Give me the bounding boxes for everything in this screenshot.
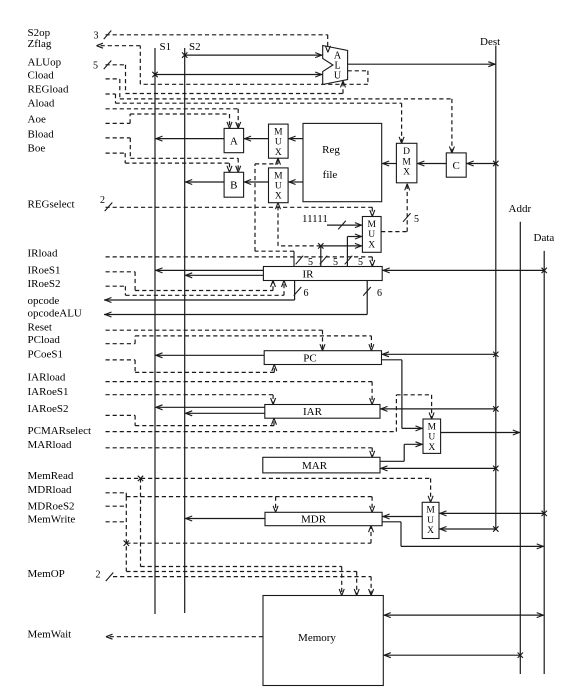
svg-text:opcodeALU: opcodeALU (28, 308, 82, 320)
control Aoe (106, 114, 233, 128)
svg-text:IARoeS1: IARoeS1 (28, 386, 69, 398)
wire MUX2 to B (244, 180, 269, 185)
label width 6 opcodeALU (377, 288, 382, 299)
svg-text:3: 3 (94, 31, 99, 42)
control MUX2 select (276, 203, 321, 246)
svg-text:11111: 11111 (302, 213, 328, 225)
label IARoeS1 (28, 386, 69, 398)
svg-text:6: 6 (377, 288, 382, 299)
svg-text:Reset: Reset (28, 322, 52, 334)
svg-text:6: 6 (304, 288, 309, 299)
svg-text:Boe: Boe (28, 142, 46, 154)
svg-text:M: M (428, 422, 437, 432)
register B (224, 172, 244, 197)
svg-text:U: U (427, 516, 434, 526)
wire Memory to Data (383, 613, 544, 618)
svg-text:IR: IR (303, 268, 315, 280)
svg-text:5: 5 (414, 214, 419, 225)
wire MUX4 to MDR (382, 514, 422, 519)
svg-text:PCload: PCload (28, 334, 61, 346)
svg-text:MemRead: MemRead (28, 470, 74, 482)
wire S2 to ALU input 1 (182, 52, 323, 57)
wire PC to S1 (155, 353, 264, 358)
svg-text:Data: Data (534, 232, 555, 244)
wire MUX3 select out to DMX (381, 183, 410, 232)
svg-text:Cload: Cload (28, 69, 55, 81)
bus Addr (509, 203, 532, 674)
wire C to DMX (417, 161, 446, 166)
svg-text:file: file (323, 169, 338, 181)
register IAR (265, 405, 380, 419)
register MAR (263, 457, 380, 473)
svg-text:M: M (402, 157, 411, 167)
mux MUX5 (addr select) (423, 419, 441, 453)
wire DMX to Regfile (382, 161, 397, 166)
svg-text:A: A (230, 136, 238, 148)
svg-text:X: X (275, 148, 282, 158)
svg-text:X: X (275, 192, 282, 202)
register IR (263, 267, 382, 281)
mux MUX4 (MDR input) (422, 502, 439, 538)
label opcode (28, 295, 60, 307)
label IRoeS1 (28, 265, 61, 277)
control Cload (106, 79, 455, 153)
memory block (263, 596, 383, 686)
wire IR to S1 (155, 268, 263, 273)
svg-text:M: M (274, 128, 283, 138)
wire IR to S2 (185, 273, 264, 278)
mux MUX3 (reg select) (362, 217, 381, 253)
register file (303, 123, 382, 201)
svg-text:Addr: Addr (509, 203, 532, 215)
label Aload (28, 97, 55, 109)
control IARoeS2 (106, 415, 277, 425)
svg-text:5: 5 (358, 257, 363, 268)
svg-text:X: X (427, 526, 434, 536)
label S2op (28, 27, 51, 39)
control S2op (94, 30, 331, 52)
svg-text:Dest: Dest (480, 36, 500, 48)
svg-text:MDR: MDR (301, 514, 327, 526)
wire IR field2 to MUX3 (318, 243, 362, 266)
wire MAR out to MUX5 (380, 442, 423, 462)
control REGload (106, 94, 405, 143)
svg-text:Aload: Aload (28, 97, 55, 109)
wire Data to MUX4 (439, 511, 547, 516)
svg-text:REGselect: REGselect (28, 198, 75, 210)
control MUX1 select (255, 158, 294, 251)
control ALUop (93, 60, 346, 93)
control PCoeS1 (106, 360, 277, 373)
svg-text:Memory: Memory (298, 632, 336, 644)
control REGselect (100, 195, 375, 217)
control MemRead (106, 476, 434, 596)
label MemWrite (28, 513, 76, 525)
svg-text:IARload: IARload (28, 372, 66, 384)
control IARoeS1 (106, 395, 276, 405)
ALU unit (323, 46, 348, 85)
control Bload (106, 138, 241, 172)
wire MDR out to Data (382, 522, 544, 549)
svg-text:U: U (428, 433, 435, 443)
svg-text:opcode: opcode (28, 295, 60, 307)
wire Dest to IAR (380, 406, 499, 411)
label REGload (28, 83, 69, 95)
svg-text:M: M (426, 506, 435, 516)
control Zflag (97, 43, 368, 84)
wire A to S1 (155, 136, 224, 141)
label PCMARselect (28, 425, 92, 437)
control MemOP (96, 569, 374, 595)
wire MUX5 to Addr (441, 430, 521, 435)
wire S1 to ALU input 2 (152, 72, 322, 77)
label PCoeS1 (28, 349, 63, 361)
label IARload (28, 372, 66, 384)
wire Dest to PC (382, 352, 499, 357)
svg-text:Reg: Reg (322, 144, 340, 156)
svg-text:MemOP: MemOP (28, 568, 65, 580)
label ALUop (28, 56, 62, 68)
svg-text:MARload: MARload (28, 439, 73, 451)
label opcodeALU (28, 308, 82, 320)
bus Dest (480, 36, 500, 529)
svg-text:ALUop: ALUop (28, 56, 62, 68)
control PCMARselect (106, 395, 435, 432)
register A (224, 128, 244, 152)
label width 6 opcode (304, 288, 309, 299)
wire Dest to C (466, 161, 498, 166)
label Aoe (28, 114, 46, 126)
svg-text:IARoeS2: IARoeS2 (28, 403, 69, 415)
wire IAR to S2 (185, 411, 265, 416)
svg-text:U: U (334, 71, 342, 82)
svg-text:X: X (403, 168, 410, 178)
label MDRoeS2 (28, 500, 75, 512)
svg-text:REGload: REGload (28, 83, 69, 95)
svg-text:B: B (230, 180, 237, 192)
wire IAR to S1 (155, 405, 265, 410)
svg-text:M: M (274, 171, 283, 181)
control MARload (106, 448, 375, 458)
svg-text:IRoeS2: IRoeS2 (28, 278, 61, 290)
wire IR field3 to MUX3 (345, 234, 363, 267)
label MemOP (28, 568, 65, 580)
control MDRload (106, 493, 375, 513)
svg-text:M: M (367, 220, 376, 230)
node constant 11111 (302, 213, 362, 230)
register MDR (265, 512, 382, 525)
control Reset (106, 330, 326, 351)
label MemRead (28, 470, 74, 482)
wire PC out to MUX5 (382, 360, 424, 431)
svg-text:5: 5 (93, 61, 98, 72)
control MemWrite (106, 522, 360, 596)
register C (446, 153, 466, 177)
svg-text:X: X (368, 240, 375, 250)
svg-text:X: X (428, 443, 435, 453)
svg-text:IRload: IRload (28, 247, 58, 259)
svg-text:MemWait: MemWait (28, 628, 72, 640)
control IRload (106, 257, 375, 267)
svg-text:IRoeS1: IRoeS1 (28, 265, 61, 277)
label Reset (28, 322, 52, 334)
svg-text:MAR: MAR (302, 460, 328, 472)
wire Data to IR (382, 268, 547, 273)
svg-text:U: U (368, 230, 375, 240)
label PCload (28, 334, 61, 346)
svg-text:Zflag: Zflag (28, 38, 52, 50)
wire opcodeALU (104, 281, 371, 318)
control MemWait (106, 634, 263, 639)
svg-text:2: 2 (96, 569, 101, 580)
svg-text:MemWrite: MemWrite (28, 513, 76, 525)
svg-text:Bload: Bload (28, 129, 55, 141)
svg-text:PCMARselect: PCMARselect (28, 425, 92, 437)
wire MDR to S2 (185, 516, 265, 521)
svg-text:U: U (275, 138, 282, 148)
control IRoeS1 (106, 272, 276, 291)
svg-text:S2: S2 (189, 41, 201, 53)
label Zflag (28, 38, 52, 50)
label IRload (28, 247, 58, 259)
control Boe (106, 153, 233, 172)
label IRoeS2 (28, 278, 61, 290)
svg-text:U: U (275, 182, 282, 192)
wire Addr to Memory (383, 653, 523, 658)
svg-text:PCoeS1: PCoeS1 (28, 349, 63, 361)
demux DMX (396, 143, 417, 183)
svg-text:D: D (403, 147, 410, 157)
label MARload (28, 439, 73, 451)
wire ALU output to Dest (348, 62, 496, 67)
label Bload (28, 129, 55, 141)
wire Dest to MAR (380, 466, 499, 471)
mux MUX2 (B input) (269, 168, 289, 203)
svg-text:5: 5 (308, 257, 313, 268)
wire MUX1 to A (244, 136, 269, 141)
svg-text:2: 2 (100, 195, 105, 206)
label width 5 x3 (308, 257, 363, 268)
wire Regfile to MUX1 (288, 136, 303, 141)
wire IR field1 to MUX3 (294, 251, 303, 266)
wire Regfile to MUX2 (288, 180, 303, 185)
register PC (264, 351, 381, 365)
label MemWait (28, 628, 72, 640)
label MDRload (28, 484, 73, 496)
svg-text:IAR: IAR (303, 406, 323, 418)
svg-text:Aoe: Aoe (28, 114, 46, 126)
mux MUX1 (A input) (269, 124, 289, 158)
label width 5 DMX (414, 214, 419, 225)
svg-text:S1: S1 (160, 41, 172, 53)
svg-text:C: C (453, 160, 460, 172)
label Boe (28, 142, 46, 154)
control PCload (106, 336, 374, 351)
bus S1 (155, 41, 171, 614)
control MDRoeS2 (106, 497, 374, 572)
svg-text:MDRload: MDRload (28, 484, 73, 496)
svg-text:PC: PC (303, 352, 316, 364)
label Cload (28, 69, 55, 81)
control Aload (106, 109, 241, 129)
label IARoeS2 (28, 403, 69, 415)
control IRoeS2 (106, 281, 287, 296)
wire B to S2 (185, 180, 224, 185)
svg-text:5: 5 (333, 257, 338, 268)
bus S2 (185, 41, 201, 613)
control IARload (106, 382, 375, 405)
bus Data (534, 232, 555, 674)
label REGselect (28, 198, 75, 210)
wire opcode (104, 281, 301, 303)
svg-text:MDRoeS2: MDRoeS2 (28, 500, 75, 512)
wire Dest to MUX4 (439, 526, 499, 531)
